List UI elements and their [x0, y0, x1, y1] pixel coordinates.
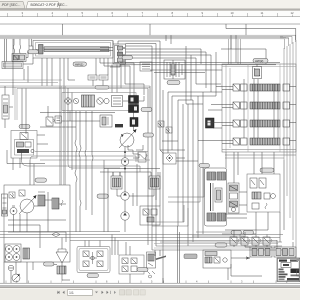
solenoid valve SV-R	[149, 172, 160, 189]
wires left cluster	[7, 135, 150, 170]
hatched regulator 1	[38, 192, 45, 206]
small pump circle left	[10, 206, 17, 215]
solenoid block on mesh	[206, 118, 215, 128]
bank internal verticals	[244, 79, 278, 138]
relief valve RV1	[138, 152, 147, 162]
below-bank valve cluster AW3	[247, 174, 280, 212]
bus lozenge	[52, 232, 60, 237]
travel motor hatch top-right	[217, 172, 226, 180]
valve bank enclosure	[222, 64, 296, 152]
strainer hatch block	[57, 266, 66, 274]
valve section V2	[222, 102, 296, 109]
travel motor center spool	[211, 183, 223, 211]
MV1 circles pair	[97, 98, 109, 104]
wire cyl2 to right	[23, 52, 33, 83]
label under rotary joint	[167, 81, 180, 85]
relief row boxes dense	[250, 247, 296, 257]
label XXX dark near motor	[115, 124, 123, 127]
left valve cluster	[11, 131, 37, 159]
wires below bank	[222, 152, 296, 242]
small box mid-left	[55, 116, 62, 123]
travel motor hatch top-left	[207, 172, 216, 180]
wires left area	[5, 39, 72, 185]
svg-text:BOBCAT~2.PDF [SEC...: BOBCAT~2.PDF [SEC...	[31, 3, 68, 7]
misc labels scattered	[95, 29, 263, 248]
label near strainer	[44, 262, 55, 266]
travel motor hatch bottom-right	[217, 213, 226, 221]
label MMV left-block	[35, 178, 47, 182]
label right of solenoids	[141, 108, 152, 112]
solenoid S1 dark	[129, 96, 139, 104]
wires cylinder head bundle	[63, 24, 247, 67]
pilot port box	[2, 194, 8, 216]
wires bank to mesh	[198, 87, 222, 141]
check box with diamond	[163, 153, 176, 164]
fan motor circle	[12, 274, 20, 282]
status nav buttons	[57, 290, 145, 296]
solenoid valve SV-L	[111, 172, 122, 189]
relief row T valves	[230, 237, 272, 245]
top hydraulic bus band	[0, 35, 289, 39]
valve section V4	[222, 138, 296, 145]
right side vertical bus	[284, 40, 296, 262]
hatched regulator 2	[52, 198, 63, 209]
small circle under motor	[121, 158, 129, 166]
mid-left wire row	[40, 106, 115, 127]
MV1 check circle 1	[65, 98, 71, 104]
wire solenoid drop	[123, 96, 144, 131]
rotary joint component	[164, 60, 185, 79]
gear cluster hatch	[23, 248, 30, 259]
motor M1 circle with arrow	[119, 129, 137, 148]
svg-text:10: 10	[231, 11, 235, 15]
tab 1	[0, 2, 25, 9]
gerotor T symbols	[9, 190, 25, 198]
MV1 check circle 2	[73, 98, 78, 103]
tab bar background	[0, 0, 300, 9]
svg-text:AW(1): AW(1)	[75, 63, 83, 67]
wire block bottom	[11, 262, 33, 283]
valve section V1	[222, 84, 296, 91]
top-center routing wires	[120, 24, 296, 104]
joystick L valves	[83, 251, 103, 267]
strainer funnel	[56, 249, 68, 263]
travel motor hatch bottom-left	[207, 213, 216, 221]
wires joystick drops	[85, 235, 163, 284]
pump column wires	[100, 151, 160, 246]
nested loop rectangles center	[152, 168, 282, 250]
block inner wires	[8, 192, 66, 248]
small box left of rotary joint	[140, 62, 152, 71]
cylinder CYL1 head valve block	[113, 44, 126, 64]
label AW(2)	[253, 59, 268, 64]
bottom main bus	[0, 232, 283, 241]
strainer wires	[4, 238, 70, 284]
status bar	[0, 288, 300, 300]
component box mid	[100, 115, 112, 127]
joystick R cluster	[119, 255, 144, 274]
center-right routing mesh	[148, 60, 216, 283]
small valve mid-left	[46, 117, 55, 126]
pump P2 circle	[121, 192, 129, 200]
orifice staircase	[128, 145, 143, 158]
tab bar lower band	[0, 9, 300, 11]
title block	[277, 258, 300, 282]
MV1 right box	[112, 96, 123, 107]
bottom-right small valve block	[203, 250, 231, 268]
cylinder CYL2 valve block	[12, 54, 26, 62]
left small cluster label	[19, 125, 30, 129]
label MMV pump	[97, 194, 109, 198]
svg-text:1/1: 1/1	[69, 291, 74, 295]
wires cylinder underside	[42, 58, 144, 96]
bank inlet relief	[253, 64, 262, 79]
label MMV2	[28, 50, 39, 54]
title block side marks	[297, 259, 301, 276]
zone numbers bottom	[16, 280, 288, 284]
rounded corner connectors left	[22, 156, 141, 172]
wires relief row	[234, 230, 293, 247]
pedal valve	[147, 252, 156, 268]
valve section V3	[222, 120, 296, 127]
bus corners to right edge verticals	[229, 35, 296, 64]
label AW(1)	[73, 62, 87, 67]
pump shaft line	[124, 147, 126, 232]
travel motor assembly frame	[205, 168, 227, 226]
horizontal ruler	[0, 11, 300, 17]
joystick enclosure L	[77, 247, 110, 273]
vertical valve assembly left of motor	[228, 183, 239, 213]
svg-text:AW(2): AW(2)	[255, 59, 263, 63]
label joystick R	[137, 268, 148, 272]
solenoid S3 dark	[130, 118, 138, 127]
filter circle bottom	[8, 265, 14, 271]
wire arrow from block	[228, 257, 262, 280]
cylinder CYL1 body	[33, 41, 113, 59]
relief row labels	[231, 231, 254, 235]
MV1 spool hatch	[82, 95, 95, 107]
svg-text:11: 11	[261, 11, 264, 15]
cylinder CYL2 body	[2, 62, 23, 69]
wire band2 corners right	[148, 86, 150, 112]
drawing top border	[0, 23, 300, 25]
svg-text:12: 12	[291, 11, 295, 15]
aux block right of pump	[140, 206, 160, 225]
left tall gauge box	[2, 95, 9, 119]
hose wires from top bus	[5, 39, 32, 62]
label joystick L	[87, 274, 99, 278]
pedal lever arrow	[147, 226, 180, 283]
svg-text:.PDF [SEC...: .PDF [SEC...	[1, 3, 20, 7]
hose squiggles center-left	[75, 111, 93, 232]
tab 2	[26, 2, 68, 9]
relief pair T symbols	[158, 121, 172, 133]
label pedal right	[184, 254, 197, 259]
solenoid S2 dark	[129, 105, 139, 113]
left pump block frame	[4, 185, 70, 262]
drawing bottom border	[0, 281, 300, 287]
label AW3	[260, 168, 274, 172]
valve assembly MV1 frame	[62, 93, 136, 111]
cylinder CYL1 clevis	[29, 46, 33, 53]
small blocks under cylinder	[88, 75, 108, 80]
second bus band	[0, 80, 150, 120]
pump P3 circle	[121, 212, 129, 220]
gear pump cluster circles	[5, 244, 21, 262]
main pump circle big	[19, 195, 37, 214]
